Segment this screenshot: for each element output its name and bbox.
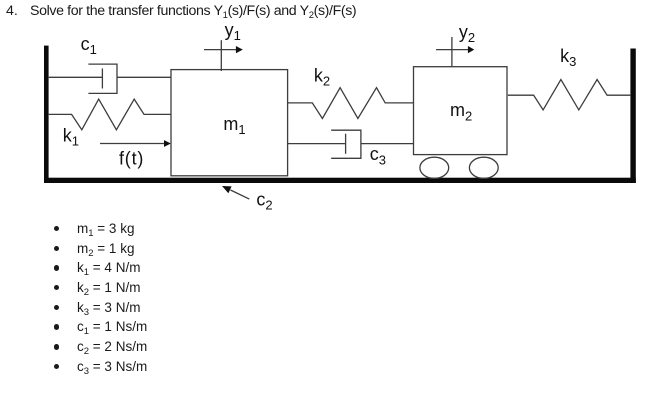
svg-text:k3: k3: [560, 46, 576, 69]
svg-text:y1: y1: [225, 20, 241, 43]
damper C1 wire from wall: [48, 76, 102, 78]
svg-text:y2: y2: [459, 22, 475, 45]
y1 indicator stem: [220, 40, 222, 71]
y2 indicator arrow: [436, 49, 468, 51]
right wall: [630, 49, 635, 184]
mass m1 box: [171, 70, 288, 176]
damper C3 piston: [345, 134, 347, 154]
svg-text:k1: k1: [63, 125, 79, 148]
svg-text:k2: k2: [314, 65, 330, 88]
y2 indicator stem: [451, 37, 453, 67]
c2 pointer arrow: [231, 190, 250, 199]
mass m2 box: [414, 67, 508, 155]
svg-text:c1: c1: [81, 34, 97, 57]
damper C1 cylinder: [88, 64, 117, 93]
damper C1 piston: [101, 69, 103, 89]
wheel 1: [420, 157, 449, 178]
damper C3 wire from mass m1: [288, 143, 346, 145]
damper C3 wire to mass m2: [361, 143, 414, 145]
damper C1 wire to mass m1: [117, 76, 171, 78]
svg-text:c2: c2: [256, 189, 272, 212]
parameter list: [0, 219, 147, 377]
spring K3: [508, 80, 631, 110]
force arrow f(t): [100, 143, 165, 145]
spring K1: [48, 99, 171, 130]
damper C3 cylinder: [331, 130, 361, 158]
title text: [6, 3, 356, 19]
spring K2: [288, 88, 414, 119]
svg-text:c3: c3: [370, 144, 386, 167]
y1 indicator arrow: [204, 49, 237, 51]
svg-text:m2: m2: [450, 100, 472, 123]
wheel 2: [469, 157, 498, 178]
floor: [44, 178, 636, 183]
svg-text:f(t): f(t): [119, 149, 144, 169]
left wall: [44, 46, 49, 183]
svg-text:m1: m1: [223, 114, 245, 137]
